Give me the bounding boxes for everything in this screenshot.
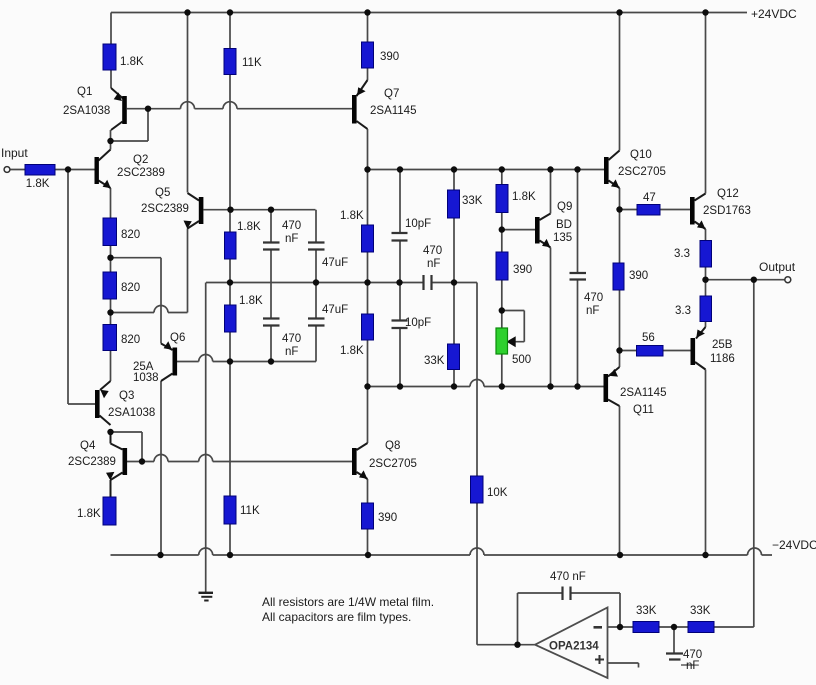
svg-text:135: 135	[553, 232, 572, 244]
svg-text:Output: Output	[759, 260, 796, 274]
svg-text:Q11: Q11	[633, 404, 654, 416]
svg-text:820: 820	[121, 334, 140, 346]
svg-text:Q7: Q7	[384, 88, 399, 100]
svg-text:All resistors are 1/4W metal f: All resistors are 1/4W metal film.	[262, 595, 434, 609]
svg-text:1.8K: 1.8K	[120, 56, 144, 68]
svg-text:47uF: 47uF	[322, 304, 348, 316]
svg-text:nF: nF	[285, 233, 298, 245]
svg-text:1.8K: 1.8K	[26, 178, 50, 190]
svg-text:Q10: Q10	[630, 149, 652, 161]
svg-text:33K: 33K	[636, 605, 657, 617]
svg-text:Q6: Q6	[170, 332, 185, 344]
svg-text:nF: nF	[285, 346, 298, 358]
svg-text:Input: Input	[1, 146, 28, 160]
svg-text:2SA1145: 2SA1145	[620, 387, 666, 399]
svg-text:2SC2705: 2SC2705	[618, 166, 666, 178]
svg-text:10pF: 10pF	[405, 317, 431, 329]
svg-text:2SA1038: 2SA1038	[63, 105, 110, 117]
svg-text:Q1: Q1	[77, 86, 92, 98]
svg-text:1.8K: 1.8K	[340, 345, 364, 357]
svg-text:Q3: Q3	[119, 390, 134, 402]
svg-text:11K: 11K	[242, 57, 262, 69]
svg-text:470: 470	[282, 333, 301, 345]
svg-text:Q12: Q12	[717, 188, 739, 200]
svg-text:Q8: Q8	[385, 440, 400, 452]
svg-text:3.3: 3.3	[674, 248, 690, 260]
svg-text:BD: BD	[556, 219, 572, 231]
svg-text:470 nF: 470 nF	[550, 571, 586, 583]
svg-text:11K: 11K	[240, 505, 260, 517]
svg-text:2SC2389: 2SC2389	[141, 203, 189, 215]
svg-text:−24VDC: −24VDC	[772, 538, 816, 552]
svg-text:nF: nF	[586, 305, 599, 317]
svg-text:10pF: 10pF	[405, 218, 431, 230]
svg-text:1.8K: 1.8K	[77, 508, 101, 520]
svg-text:Q5: Q5	[155, 187, 170, 199]
svg-text:All capacitors are film types.: All capacitors are film types.	[262, 610, 411, 624]
svg-text:Q9: Q9	[557, 201, 572, 213]
svg-text:2SC2389: 2SC2389	[117, 167, 165, 179]
svg-text:1.8K: 1.8K	[512, 191, 536, 203]
svg-text:500: 500	[512, 354, 531, 366]
svg-text:2SA1145: 2SA1145	[370, 105, 416, 117]
svg-text:47: 47	[643, 192, 656, 204]
svg-text:1186: 1186	[710, 353, 735, 365]
svg-text:33K: 33K	[424, 355, 445, 367]
svg-text:Q4: Q4	[80, 440, 96, 452]
svg-text:56: 56	[642, 332, 655, 344]
svg-text:390: 390	[513, 264, 532, 276]
svg-text:3.3: 3.3	[675, 305, 691, 317]
svg-text:47uF: 47uF	[322, 257, 348, 269]
svg-text:1.8K: 1.8K	[340, 210, 364, 222]
svg-text:470: 470	[423, 245, 442, 257]
svg-text:820: 820	[121, 282, 140, 294]
svg-text:2SC2705: 2SC2705	[369, 458, 417, 470]
svg-text:25B: 25B	[712, 339, 733, 351]
svg-text:2SD1763: 2SD1763	[703, 205, 751, 217]
svg-text:+24VDC: +24VDC	[751, 7, 797, 21]
svg-text:Q2: Q2	[133, 154, 148, 166]
svg-text:470: 470	[584, 292, 603, 304]
svg-text:nF: nF	[427, 258, 440, 270]
svg-text:33K: 33K	[462, 195, 483, 207]
svg-text:390: 390	[629, 270, 648, 282]
svg-text:820: 820	[121, 229, 140, 241]
svg-text:470: 470	[282, 220, 301, 232]
svg-text:2SA1038: 2SA1038	[108, 407, 155, 419]
svg-text:2SC2389: 2SC2389	[68, 456, 116, 468]
svg-text:nF: nF	[686, 660, 699, 672]
svg-text:1038: 1038	[133, 372, 159, 384]
svg-text:1.8K: 1.8K	[237, 221, 261, 233]
svg-text:390: 390	[378, 512, 397, 524]
svg-text:1.8K: 1.8K	[239, 295, 263, 307]
svg-text:10K: 10K	[487, 487, 508, 499]
svg-text:390: 390	[380, 51, 399, 63]
svg-text:OPA2134: OPA2134	[549, 641, 599, 653]
svg-text:33K: 33K	[690, 605, 711, 617]
